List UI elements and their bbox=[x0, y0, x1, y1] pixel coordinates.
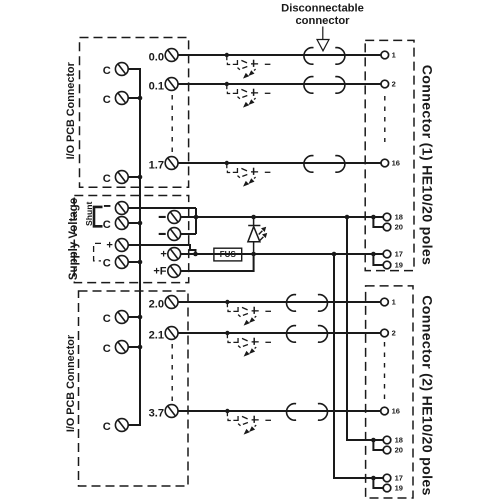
pin 1 connector 2 bbox=[381, 298, 389, 306]
terminal 0.1 (screw) bbox=[165, 78, 178, 91]
pin 17 connector 1 bbox=[383, 250, 391, 258]
wire: minus inner1 feed bbox=[181, 216, 196, 218]
terminal 2.1 (screw) bbox=[165, 327, 178, 340]
terminal +F (screw) bbox=[168, 265, 181, 278]
ellipsis dashes terminals top bbox=[171, 95, 173, 152]
LED row 3.7 (dashed) bbox=[225, 409, 271, 435]
terminal 3.7 (screw) bbox=[165, 405, 178, 418]
terminal C bottom2 (screw) bbox=[115, 341, 128, 354]
svg-text:Connector (1) HE10/20 poles: Connector (1) HE10/20 poles bbox=[418, 65, 434, 265]
LED row 1.7 (dashed) bbox=[225, 161, 271, 187]
svg-text:C: C bbox=[103, 173, 111, 185]
svg-text:I/O PCB Connector: I/O PCB Connector bbox=[65, 334, 77, 432]
junction plus rail to V2 bbox=[332, 252, 337, 257]
shunt bracket (bold) bbox=[94, 207, 103, 226]
svg-text:C: C bbox=[103, 65, 111, 77]
pin 2 connector 1 bbox=[381, 80, 389, 88]
junction LED bottom bbox=[251, 252, 256, 257]
wire: C stub top box C3 bbox=[128, 176, 140, 178]
LED supply (solid) bbox=[248, 217, 267, 254]
svg-text:1: 1 bbox=[392, 298, 396, 307]
svg-text:FUS: FUS bbox=[220, 250, 237, 259]
terminal C supply1 (screw) bbox=[115, 217, 128, 230]
terminal C bottom1 (screw) bbox=[115, 311, 128, 324]
wire: minus left feed bbox=[128, 207, 196, 209]
wire: minus rail bbox=[196, 216, 373, 218]
terminal C top3 (screw) bbox=[115, 171, 128, 184]
wire: minus inner2 feed bbox=[181, 233, 196, 235]
wire: minus vertical join bbox=[195, 208, 197, 234]
I/O PCB Connector box 2 (dashed) bbox=[79, 291, 189, 486]
svg-text:2: 2 bbox=[392, 80, 396, 89]
pin 16 connector 1 bbox=[381, 159, 389, 167]
wire: C stub bottom box C2 bbox=[128, 346, 140, 348]
wire: row 3.7 bbox=[178, 410, 381, 412]
svg-text:0.0: 0.0 bbox=[149, 51, 164, 63]
terminal C top2 (screw) bbox=[115, 92, 128, 105]
svg-text:20: 20 bbox=[395, 223, 403, 232]
svg-text:18: 18 bbox=[395, 213, 403, 222]
svg-text:+: + bbox=[160, 248, 167, 260]
svg-text:16: 16 bbox=[392, 407, 400, 416]
label: Disconnectable connector bbox=[281, 2, 364, 27]
svg-text:Supply Voltage: Supply Voltage bbox=[68, 198, 80, 280]
connector1 pin17/19 bracket bbox=[373, 254, 383, 265]
I/O PCB Connector box 1 (dashed) bbox=[80, 38, 189, 188]
svg-text:20: 20 bbox=[395, 446, 403, 455]
svg-text:3.7: 3.7 bbox=[149, 407, 164, 419]
svg-text:C: C bbox=[103, 343, 111, 355]
wire: row 1.7 bbox=[178, 162, 381, 164]
pin 2 connector 2 bbox=[381, 329, 389, 337]
pin 19 connector 1 bbox=[383, 261, 391, 269]
svg-text:Connector (2) HE10/20 poles: Connector (2) HE10/20 poles bbox=[418, 295, 434, 495]
svg-text:17: 17 bbox=[395, 250, 403, 259]
svg-text:+F: +F bbox=[153, 266, 166, 278]
wire: +F feed bbox=[181, 254, 254, 271]
svg-text:Disconnectable: Disconnectable bbox=[281, 2, 364, 14]
connector2 pin18/20 bracket bbox=[373, 440, 383, 450]
svg-text:2: 2 bbox=[392, 329, 396, 338]
junction on C bus bbox=[138, 96, 143, 101]
wire: plus inner feed bbox=[181, 253, 196, 255]
connector1 pin18/20 bracket bbox=[373, 217, 383, 227]
svg-text:2.1: 2.1 bbox=[149, 329, 164, 341]
wire: row 2.1 bbox=[178, 332, 381, 334]
junction on C bus bbox=[138, 175, 143, 180]
svg-text:1: 1 bbox=[392, 51, 396, 60]
LED row 2.0 (dashed) bbox=[225, 300, 271, 326]
pin 18 connector 1 bbox=[383, 213, 391, 221]
disconnectable connector row 0.0 bbox=[304, 48, 345, 65]
disconnectable connector row 2.0 bbox=[287, 295, 328, 312]
pin 19 connector 2 bbox=[383, 484, 391, 492]
terminal C top1 (screw) bbox=[115, 63, 128, 76]
pin 20 connector 2 bbox=[383, 446, 391, 454]
wire: V2 plus to connector2 pin17 bbox=[334, 254, 373, 478]
wire: C stub bottom box C1 bbox=[128, 316, 140, 318]
disconnectable connector row 0.1 bbox=[304, 77, 345, 94]
svg-text:17: 17 bbox=[395, 474, 403, 483]
junction minus rail to V1 bbox=[345, 215, 350, 220]
terminal 0.0 (screw) bbox=[165, 49, 178, 62]
junction LED top bbox=[251, 215, 256, 220]
junction plus node bbox=[193, 252, 198, 257]
svg-text:+: + bbox=[106, 239, 113, 251]
terminal C bottom3 (screw) bbox=[115, 419, 128, 432]
wire: C stub supply C1 bbox=[128, 222, 140, 224]
wire: row 2.0 bbox=[178, 301, 381, 303]
svg-text:19: 19 bbox=[395, 261, 403, 270]
svg-text:19: 19 bbox=[395, 484, 403, 493]
ellipsis dashes terminals bottom bbox=[171, 344, 173, 402]
wire: common C bus (vertical) bbox=[128, 69, 140, 425]
svg-text:C: C bbox=[103, 421, 111, 433]
svg-text:18: 18 bbox=[395, 436, 403, 445]
Supply Voltage box (dashed) bbox=[74, 196, 188, 283]
junction on C bus bbox=[138, 221, 143, 226]
terminal C supply2 (screw) bbox=[115, 256, 128, 269]
disconnectable connector row 2.1 bbox=[287, 326, 328, 343]
svg-text:1.7: 1.7 bbox=[149, 159, 164, 171]
terminal 1.7 (screw) bbox=[165, 157, 178, 170]
dashed bracket plus/C bbox=[94, 243, 101, 261]
terminal plus inner (screw) bbox=[168, 248, 181, 261]
LED row 0.1 (dashed) bbox=[225, 82, 271, 108]
fuse FUS bbox=[214, 248, 242, 261]
junction on C bus bbox=[138, 260, 143, 265]
terminal plus left (screw) bbox=[115, 239, 128, 252]
pin 20 connector 1 bbox=[383, 223, 391, 231]
terminal minus left (screw) bbox=[115, 202, 128, 215]
disconnectable connector row 1.7 bbox=[304, 156, 345, 173]
Connector (1) box (dashed) bbox=[365, 40, 414, 270]
ellipsis dashes pins bottom bbox=[384, 342, 386, 403]
wire: row 0.1 bbox=[178, 83, 381, 85]
LED row 0.0 (dashed) bbox=[225, 53, 271, 79]
terminal minus inner 1 (screw) bbox=[168, 211, 181, 224]
wire: V1 minus to connector2 pin18 bbox=[347, 217, 373, 440]
pin 1 connector 1 bbox=[381, 51, 389, 59]
terminal 2.0 (screw) bbox=[165, 296, 178, 309]
svg-text:C: C bbox=[103, 257, 111, 269]
svg-text:I/O PCB Connector: I/O PCB Connector bbox=[65, 61, 77, 159]
svg-text:16: 16 bbox=[392, 159, 400, 168]
connector2 pin17/19 bracket bbox=[373, 478, 383, 488]
junction minus node bbox=[194, 215, 199, 220]
arrow to disconnectable connector bbox=[317, 27, 329, 51]
ellipsis dashes pins top bbox=[384, 96, 386, 142]
pin 16 connector 2 bbox=[381, 407, 389, 415]
Connector (2) box (dashed) bbox=[366, 286, 413, 498]
svg-text:C: C bbox=[103, 219, 111, 231]
pin 17 connector 2 bbox=[383, 474, 391, 482]
wire: row 0.0 bbox=[178, 54, 381, 56]
junction on C bus bbox=[138, 315, 143, 320]
LED row 2.1 (dashed) bbox=[225, 331, 271, 357]
svg-text:0.1: 0.1 bbox=[149, 80, 164, 92]
svg-text:C: C bbox=[103, 313, 111, 325]
wire: C stub top box C2 bbox=[128, 97, 140, 99]
pin 18 connector 2 bbox=[383, 436, 391, 444]
wire: plus left feed (jog) bbox=[128, 245, 195, 254]
svg-text:2.0: 2.0 bbox=[149, 298, 164, 310]
svg-text:connector: connector bbox=[295, 15, 350, 27]
terminal minus inner 2 (screw) bbox=[168, 228, 181, 241]
junction on C bus bbox=[138, 345, 143, 350]
disconnectable connector row 3.7 bbox=[287, 404, 328, 421]
wire: C stub supply C2 bbox=[128, 261, 140, 263]
wire: plus rail through fuse bbox=[196, 253, 374, 255]
svg-text:C: C bbox=[103, 94, 111, 106]
